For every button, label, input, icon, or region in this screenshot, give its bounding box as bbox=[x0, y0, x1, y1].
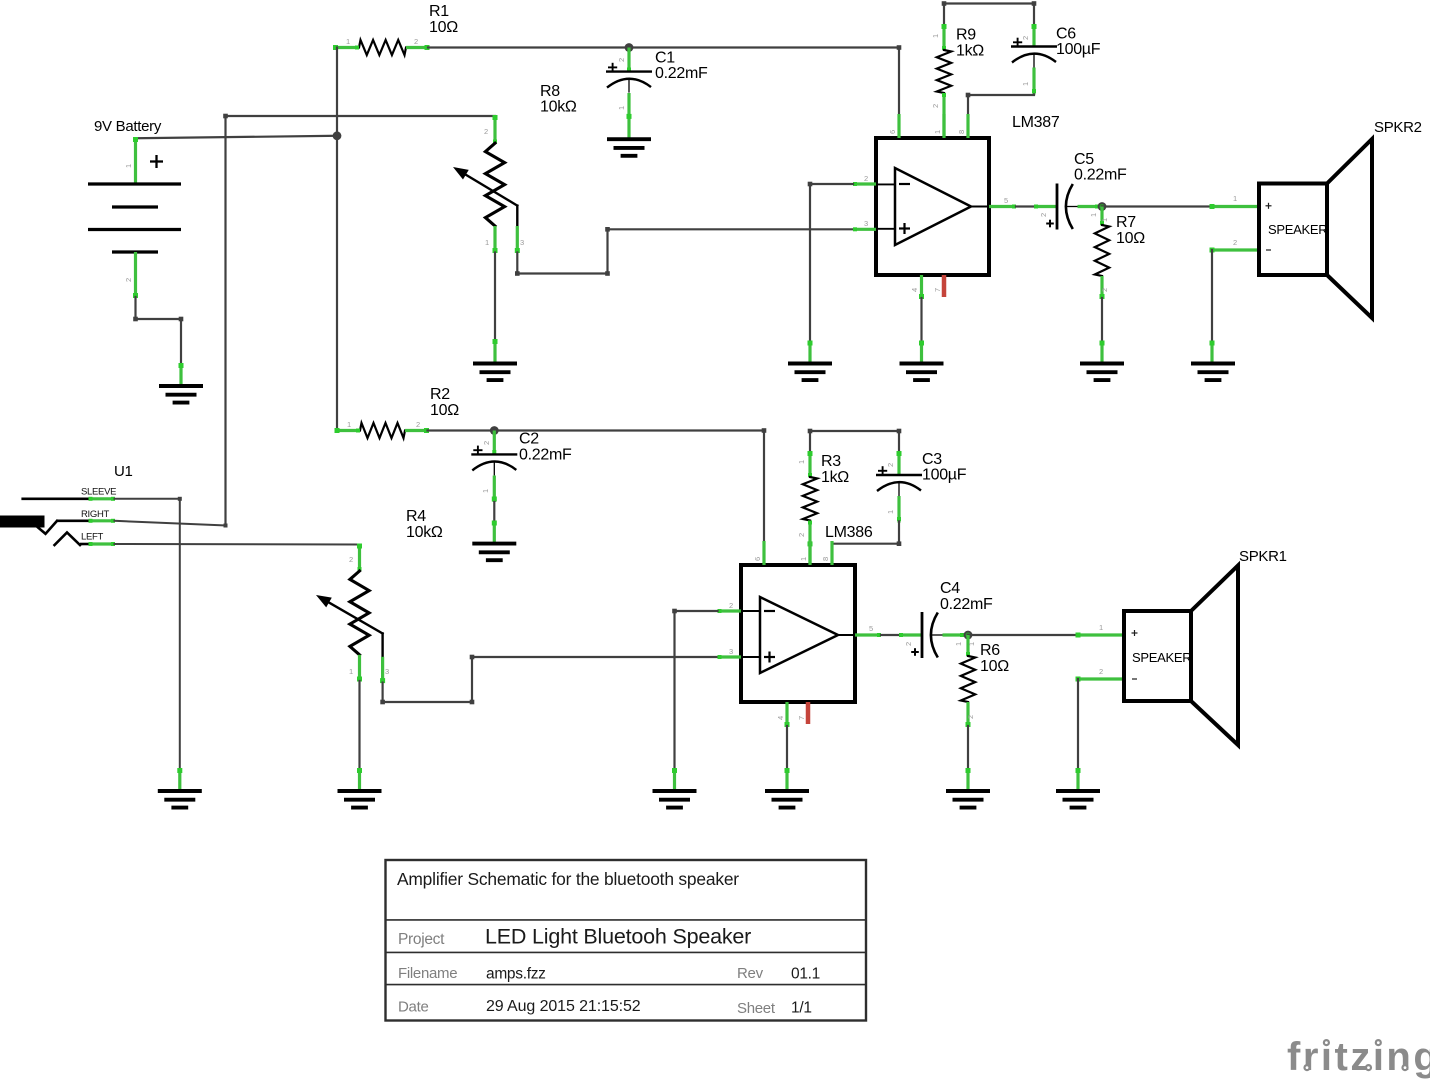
svg-text:1: 1 bbox=[967, 642, 976, 646]
svg-text:5: 5 bbox=[869, 624, 873, 633]
svg-text:1: 1 bbox=[799, 557, 808, 561]
svg-text:10Ω: 10Ω bbox=[1116, 230, 1145, 247]
svg-text:5: 5 bbox=[1004, 196, 1008, 205]
svg-text:100µF: 100µF bbox=[1056, 41, 1101, 58]
svg-text:3: 3 bbox=[729, 647, 733, 656]
svg-text:1: 1 bbox=[1089, 213, 1098, 217]
svg-text:R6: R6 bbox=[980, 642, 1000, 659]
svg-text:2: 2 bbox=[1100, 288, 1109, 292]
svg-text:Rev: Rev bbox=[737, 965, 764, 982]
svg-text:0.22mF: 0.22mF bbox=[655, 65, 708, 82]
svg-text:1: 1 bbox=[617, 106, 626, 110]
svg-text:1: 1 bbox=[933, 130, 942, 134]
svg-text:R4: R4 bbox=[406, 508, 426, 525]
svg-text:C6: C6 bbox=[1056, 26, 1076, 43]
svg-text:1: 1 bbox=[1100, 218, 1109, 222]
svg-text:1: 1 bbox=[349, 667, 353, 676]
svg-text:2: 2 bbox=[864, 174, 868, 183]
svg-text:1: 1 bbox=[1099, 623, 1103, 632]
svg-text:8: 8 bbox=[957, 130, 966, 134]
svg-text:LM387: LM387 bbox=[1012, 114, 1060, 131]
svg-text:3: 3 bbox=[385, 667, 389, 676]
svg-text:2: 2 bbox=[484, 127, 488, 136]
svg-text:1kΩ: 1kΩ bbox=[956, 42, 984, 59]
svg-text:2: 2 bbox=[414, 37, 418, 46]
svg-text:R3: R3 bbox=[821, 453, 841, 470]
svg-text:2: 2 bbox=[1233, 238, 1237, 247]
svg-text:3: 3 bbox=[520, 238, 524, 247]
svg-text:2: 2 bbox=[931, 104, 940, 108]
svg-text:R2: R2 bbox=[430, 386, 450, 403]
svg-text:SPEAKER: SPEAKER bbox=[1268, 222, 1327, 237]
svg-text:1: 1 bbox=[954, 642, 963, 646]
svg-text:3: 3 bbox=[864, 219, 868, 228]
svg-text:LEFT: LEFT bbox=[81, 531, 104, 542]
svg-text:10kΩ: 10kΩ bbox=[540, 98, 577, 115]
svg-text:100µF: 100µF bbox=[922, 467, 967, 484]
svg-text:Amplifier Schematic for the bl: Amplifier Schematic for the bluetooth sp… bbox=[397, 869, 739, 889]
svg-text:LED Light Bluetooh Speaker: LED Light Bluetooh Speaker bbox=[485, 925, 751, 949]
svg-text:4: 4 bbox=[776, 716, 785, 720]
svg-text:Project: Project bbox=[398, 931, 445, 948]
svg-text:0.22mF: 0.22mF bbox=[1074, 167, 1127, 184]
svg-text:fritzing: fritzing bbox=[1287, 1035, 1430, 1079]
svg-text:2: 2 bbox=[729, 601, 733, 610]
svg-text:7: 7 bbox=[933, 288, 942, 292]
svg-text:C3: C3 bbox=[922, 451, 942, 468]
svg-text:1: 1 bbox=[485, 238, 489, 247]
svg-text:10Ω: 10Ω bbox=[430, 402, 459, 419]
svg-text:C2: C2 bbox=[519, 431, 539, 448]
svg-text:2: 2 bbox=[617, 58, 626, 62]
svg-text:R7: R7 bbox=[1116, 214, 1136, 231]
svg-text:1/1: 1/1 bbox=[791, 1000, 812, 1017]
svg-text:2: 2 bbox=[886, 463, 895, 467]
svg-text:2: 2 bbox=[797, 533, 806, 537]
svg-text:RIGHT: RIGHT bbox=[81, 509, 110, 520]
svg-text:2: 2 bbox=[1099, 667, 1103, 676]
svg-text:R9: R9 bbox=[956, 26, 976, 43]
svg-text:SLEEVE: SLEEVE bbox=[81, 486, 116, 497]
svg-text:SPKR1: SPKR1 bbox=[1239, 548, 1287, 565]
svg-text:Sheet: Sheet bbox=[737, 1000, 776, 1017]
svg-text:29 Aug 2015 21:15:52: 29 Aug 2015 21:15:52 bbox=[486, 998, 641, 1015]
svg-text:8: 8 bbox=[821, 557, 830, 561]
svg-text:1: 1 bbox=[481, 489, 490, 493]
svg-text:1: 1 bbox=[797, 460, 806, 464]
svg-text:1: 1 bbox=[124, 164, 133, 168]
svg-text:6: 6 bbox=[888, 130, 897, 134]
svg-text:R1: R1 bbox=[429, 3, 449, 20]
svg-text:U1: U1 bbox=[114, 463, 133, 480]
svg-text:Filename: Filename bbox=[398, 965, 457, 982]
svg-text:2: 2 bbox=[1021, 36, 1030, 40]
svg-text:01.1: 01.1 bbox=[791, 966, 820, 983]
svg-text:2: 2 bbox=[1039, 213, 1048, 217]
svg-text:10Ω: 10Ω bbox=[429, 19, 458, 36]
svg-text:amps.fzz: amps.fzz bbox=[486, 966, 546, 983]
svg-text:SPEAKER: SPEAKER bbox=[1132, 650, 1191, 665]
svg-text:1: 1 bbox=[1233, 194, 1237, 203]
svg-text:C5: C5 bbox=[1074, 151, 1094, 168]
svg-text:0.22mF: 0.22mF bbox=[519, 446, 572, 463]
svg-text:1: 1 bbox=[347, 420, 351, 429]
svg-text:2: 2 bbox=[124, 278, 133, 282]
svg-text:1: 1 bbox=[886, 510, 895, 514]
svg-text:2: 2 bbox=[349, 555, 353, 564]
svg-text:R8: R8 bbox=[540, 83, 560, 100]
svg-text:6: 6 bbox=[753, 557, 762, 561]
svg-text:9V Battery: 9V Battery bbox=[94, 118, 162, 135]
svg-text:10kΩ: 10kΩ bbox=[406, 524, 443, 541]
svg-text:7: 7 bbox=[797, 716, 806, 720]
svg-text:2: 2 bbox=[904, 642, 913, 646]
svg-text:10Ω: 10Ω bbox=[980, 658, 1009, 675]
svg-text:1: 1 bbox=[346, 37, 350, 46]
svg-text:1: 1 bbox=[931, 34, 940, 38]
svg-text:4: 4 bbox=[910, 288, 919, 292]
svg-text:0.22mF: 0.22mF bbox=[940, 596, 993, 613]
svg-text:1kΩ: 1kΩ bbox=[821, 469, 849, 486]
svg-text:1: 1 bbox=[1021, 82, 1030, 86]
svg-text:LM386: LM386 bbox=[825, 524, 873, 541]
svg-text:SPKR2: SPKR2 bbox=[1374, 119, 1422, 136]
svg-text:Date: Date bbox=[398, 999, 429, 1016]
svg-text:2: 2 bbox=[966, 715, 975, 719]
svg-text:C4: C4 bbox=[940, 580, 960, 597]
svg-text:2: 2 bbox=[482, 441, 491, 445]
svg-text:2: 2 bbox=[416, 420, 420, 429]
